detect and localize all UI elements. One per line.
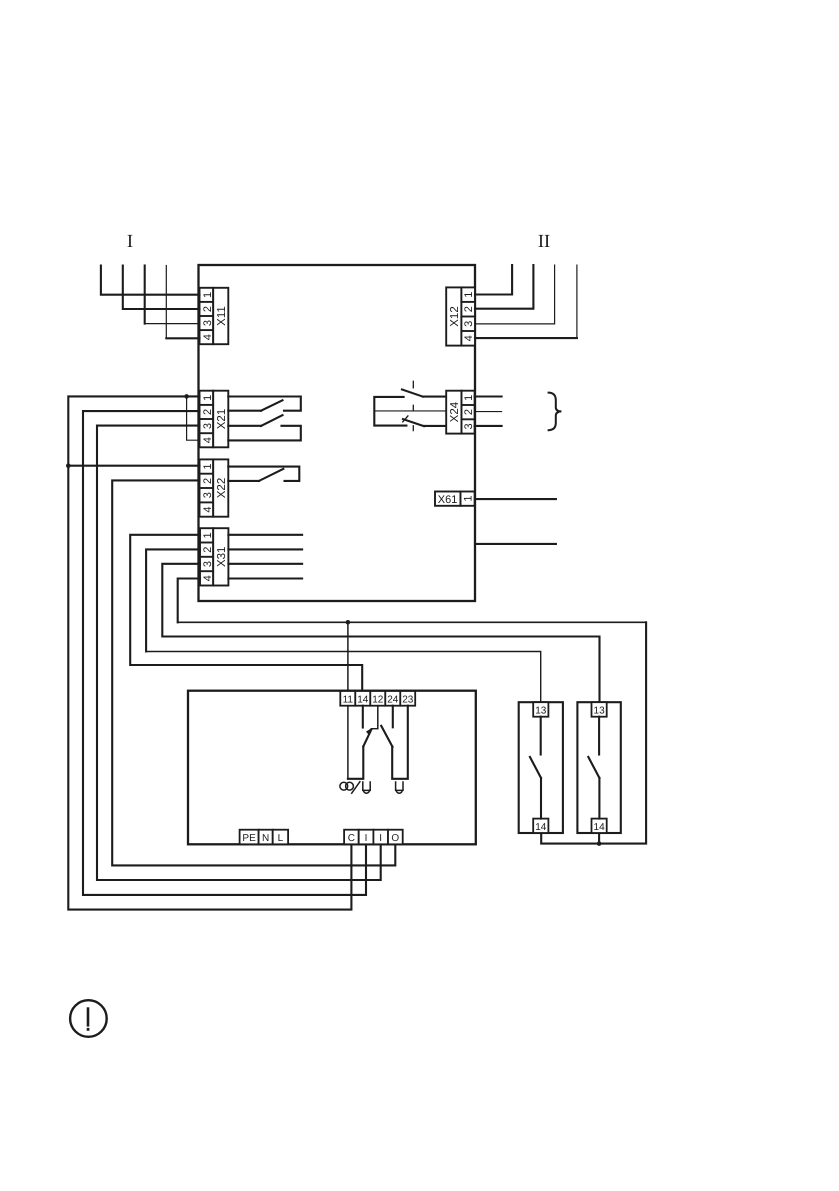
main control unit box xyxy=(199,265,476,601)
terminal strip C I I O xyxy=(344,830,403,845)
wire terminal 23 leg xyxy=(392,706,408,779)
wire mains-I L1 to X11:1 xyxy=(101,266,200,295)
relay A3 contact xyxy=(598,717,600,755)
svg-text:2: 2 xyxy=(202,409,214,415)
svg-text:13: 13 xyxy=(594,705,606,716)
wire sensor stub right xyxy=(475,543,556,545)
switch K1 contact X21:1-2 xyxy=(228,397,300,411)
svg-text:3: 3 xyxy=(463,321,475,327)
warning symbol circle xyxy=(70,1000,107,1037)
switch lower tick xyxy=(403,416,408,422)
switch blade right xyxy=(381,726,392,747)
svg-text:23: 23 xyxy=(402,694,414,705)
connector X22 xyxy=(200,459,229,516)
lower device box xyxy=(188,691,476,845)
wire X31:2 to relay A2 13 xyxy=(146,549,200,651)
relay changeover contact inside lower box xyxy=(348,706,408,779)
svg-text:X12: X12 xyxy=(449,306,461,326)
connector X11 xyxy=(200,288,229,344)
svg-text:2: 2 xyxy=(202,547,214,553)
relay A2 terminal 14 xyxy=(533,819,548,833)
wire mains-I L4 to X11:4 xyxy=(165,266,167,339)
wire X24:3 stub right xyxy=(475,425,502,427)
svg-text:X22: X22 xyxy=(216,478,228,498)
wire blade to X24:1 xyxy=(423,396,446,398)
connector X24 xyxy=(446,391,475,434)
svg-text:2: 2 xyxy=(463,409,475,415)
svg-text:2: 2 xyxy=(202,306,214,312)
wire mains-II L1 to X12:1 xyxy=(475,265,512,294)
wire X24:1 stub right xyxy=(475,395,502,397)
svg-text:4: 4 xyxy=(463,335,475,341)
wire X61:1 stub right xyxy=(475,498,556,500)
svg-text:X11: X11 xyxy=(216,306,228,326)
switch K3 contact X22:1-2 xyxy=(228,467,299,481)
svg-text:X31: X31 xyxy=(216,547,228,567)
svg-text:4: 4 xyxy=(202,334,214,340)
switch blade lower X24 xyxy=(403,419,424,426)
wire blade to X24:3 xyxy=(424,425,446,427)
relay A3 terminal 14 xyxy=(592,819,607,833)
terminal strip PE N L xyxy=(240,830,289,845)
wire mains-I L2 to X11:2 xyxy=(123,266,200,310)
connector X12 xyxy=(446,287,475,345)
switch blade upper X24 xyxy=(402,390,423,397)
svg-text:PE: PE xyxy=(242,833,256,844)
svg-text:1: 1 xyxy=(463,292,475,298)
wire X22:1 to C bus xyxy=(68,465,199,467)
wire X31:3 to relay A3 13 xyxy=(162,564,599,703)
relay A2 terminal 13 xyxy=(533,702,548,717)
wire X24:2 stub right xyxy=(475,411,502,413)
switch K2 contact X21:3-4 xyxy=(228,425,261,427)
terminal 24 stub xyxy=(392,706,394,728)
terminal strip 11 14 12 24 23 xyxy=(340,691,415,706)
wire mains-II L4 to X12:4 xyxy=(576,265,578,338)
wire X21:2 to left bus to terminal I xyxy=(83,411,366,895)
wire X21:3 to left bus to terminal I xyxy=(97,426,381,880)
svg-text:1: 1 xyxy=(202,532,214,538)
svg-text:X24: X24 xyxy=(449,401,461,422)
svg-text:3: 3 xyxy=(202,492,214,498)
svg-text:3: 3 xyxy=(202,423,214,429)
wire relay A3 14 to bus xyxy=(598,833,600,844)
svg-text:1: 1 xyxy=(202,395,214,401)
svg-text:1: 1 xyxy=(202,464,214,470)
warning exclamation dot xyxy=(87,1028,90,1031)
svg-text:3: 3 xyxy=(463,423,475,429)
svg-text:II: II xyxy=(538,232,550,252)
wire mains-I L3 to X11:3 xyxy=(144,266,146,324)
svg-text:14: 14 xyxy=(357,694,369,705)
node junction on wire to terminal 11 xyxy=(346,620,351,625)
wire X22:2 to left bus to terminal O xyxy=(112,480,395,865)
wire X31:4 stub right xyxy=(228,577,302,579)
svg-text:I: I xyxy=(379,833,382,844)
svg-text:4: 4 xyxy=(202,507,214,513)
terminal 12 pole stub xyxy=(377,706,379,729)
contactor X24 switch group xyxy=(374,381,446,430)
wire terminal 11 leg xyxy=(347,706,349,779)
terminal 14 stub xyxy=(362,706,364,728)
wire mains-II L3 to X12:3 xyxy=(475,265,555,324)
node junction X22:1 on C bus xyxy=(66,463,71,468)
wire junction to terminal 11 xyxy=(347,622,349,690)
svg-text:I: I xyxy=(365,833,368,844)
svg-text:14: 14 xyxy=(535,822,547,833)
connector X21 xyxy=(200,391,229,448)
warning exclamation bar xyxy=(87,1009,90,1026)
svg-text:3: 3 xyxy=(202,320,214,326)
relay A2 contact xyxy=(540,717,542,755)
svg-text:13: 13 xyxy=(535,705,547,716)
load icon horn 2 xyxy=(396,782,403,793)
svg-text:2: 2 xyxy=(463,306,475,312)
mechanical linkage dash-dot xyxy=(412,381,414,430)
wire X31:1 to terminal 14 of lower box xyxy=(130,535,362,691)
svg-text:C: C xyxy=(348,833,355,844)
wire X31:3 stub right xyxy=(228,563,302,565)
svg-text:X61: X61 xyxy=(438,494,458,506)
svg-text:N: N xyxy=(262,833,269,844)
connector X61 xyxy=(435,492,475,507)
svg-text:3: 3 xyxy=(202,561,214,567)
svg-text:I: I xyxy=(127,232,133,252)
relay A3 terminal 13 xyxy=(592,702,607,717)
node junction relay A3 14 on bus xyxy=(597,841,602,846)
svg-text:4: 4 xyxy=(202,575,214,581)
relay A2 box xyxy=(519,702,563,833)
svg-text:1: 1 xyxy=(202,292,214,298)
svg-text:1: 1 xyxy=(463,395,475,401)
svg-text:24: 24 xyxy=(387,694,399,705)
wire X21:1 to left bus to terminal C xyxy=(68,396,351,909)
svg-text:L: L xyxy=(278,833,284,844)
wire X31:1 stub right xyxy=(228,534,302,536)
connector X31 xyxy=(200,528,228,585)
svg-text:O: O xyxy=(391,833,399,844)
wire X31:4 to relay 14 bus xyxy=(178,579,200,623)
svg-text:1: 1 xyxy=(462,496,474,502)
brace group xyxy=(549,393,562,431)
switch blade left with arrow xyxy=(363,730,371,747)
load icon lamp/horn xyxy=(340,782,370,794)
node junction X21:1 jumper xyxy=(184,394,189,399)
wire jumper X21:1 to X21:4 xyxy=(187,396,200,440)
wire X31:2 stub right xyxy=(228,548,302,550)
relay A3 box xyxy=(577,702,620,833)
wire X24:2 middle xyxy=(374,410,446,412)
svg-text:12: 12 xyxy=(372,694,384,705)
svg-text:11: 11 xyxy=(343,694,354,705)
svg-text:2: 2 xyxy=(202,478,214,484)
wire X24 left link U xyxy=(374,397,406,426)
wire mains-II L2 to X12:2 xyxy=(475,265,533,309)
svg-text:X21: X21 xyxy=(216,409,228,429)
svg-text:14: 14 xyxy=(594,822,606,833)
svg-text:4: 4 xyxy=(202,437,214,443)
